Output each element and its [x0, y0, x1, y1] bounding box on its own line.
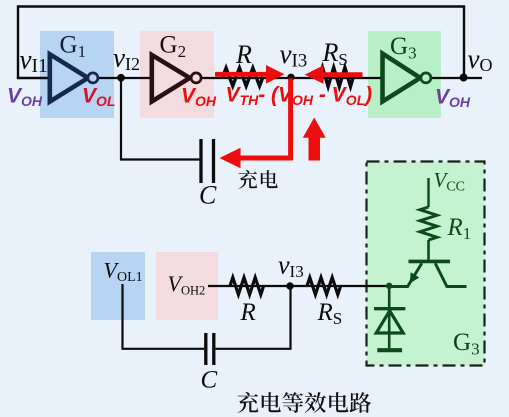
node vO junction dot: [460, 74, 468, 82]
inverter G3 bubble: [421, 73, 431, 83]
transistor emitter with arrow to input node: [389, 263, 422, 286]
svg-text:R: R: [240, 299, 256, 326]
red charging path from vI3 down to capacitor: [240, 79, 293, 159]
diode cathode bar: [374, 307, 405, 310]
label 充电等效电路 (charging equivalent circuit): [237, 392, 371, 413]
diode bottom terminal bar: [377, 348, 402, 352]
gate G3 background box: [368, 31, 441, 118]
red current arrow through RS pointing left: [321, 72, 363, 77]
wire R1 to transistor base: [427, 240, 430, 260]
wire vI2 down to capacitor C left plate: [121, 78, 199, 160]
inverter G1 bubble: [88, 73, 98, 83]
svg-text:C: C: [201, 367, 218, 394]
wire VCC down to R1: [427, 178, 429, 207]
svg-text:R: R: [235, 40, 252, 69]
wire G3 output to node vO and stub: [431, 77, 482, 79]
gate G2 background box: [140, 31, 214, 118]
inverter G2 triangle: [152, 55, 190, 102]
resistor RS (top): [320, 68, 354, 87]
wire G2 output through R, node vI3, RS to G3 input: [201, 77, 383, 79]
diode triangle: [376, 311, 403, 333]
wire feedback loop from vO to vI1: [18, 7, 464, 79]
capacitor C (top circuit): [201, 139, 214, 183]
wire VOH2 through R, node vI3, RS into G3 box: [208, 285, 389, 287]
inverter G3 triangle: [383, 54, 421, 102]
red current arrow through R pointing right: [215, 72, 268, 77]
red block arrow pointing up: [303, 118, 326, 161]
equivalent-circuit G3 dashed green box: [367, 162, 485, 366]
node vI2 junction dot: [117, 74, 125, 82]
label 充电 (charging): [239, 170, 278, 189]
gate G1 background box: [40, 31, 114, 118]
transistor base bar: [409, 260, 451, 264]
inverter G1 triangle: [50, 54, 88, 101]
resistor R1 (vertical): [420, 207, 437, 240]
svg-text:C: C: [199, 181, 217, 210]
wire G1 output to G2 input (node vI2): [98, 77, 152, 79]
wire VOL1 down to capacitor C (bottom): [123, 284, 205, 349]
inverter G2 bubble: [191, 73, 201, 83]
transistor collector lead: [435, 263, 466, 286]
capacitor C (bottom circuit): [206, 333, 214, 365]
node vI3 (bottom) junction dot: [286, 282, 293, 289]
source VOH2 background box: [156, 252, 218, 320]
node vI3 junction dot: [287, 74, 294, 81]
source VOL1 background box: [91, 252, 145, 320]
wire capacitor right plate up to node vI3 (bottom): [215, 288, 290, 349]
resistor R (bottom): [230, 278, 264, 295]
resistor R (top): [223, 68, 263, 86]
resistor RS (bottom): [307, 278, 341, 295]
node inside G3 box junction dot: [386, 283, 392, 289]
diode vertical wire from node: [388, 286, 391, 348]
